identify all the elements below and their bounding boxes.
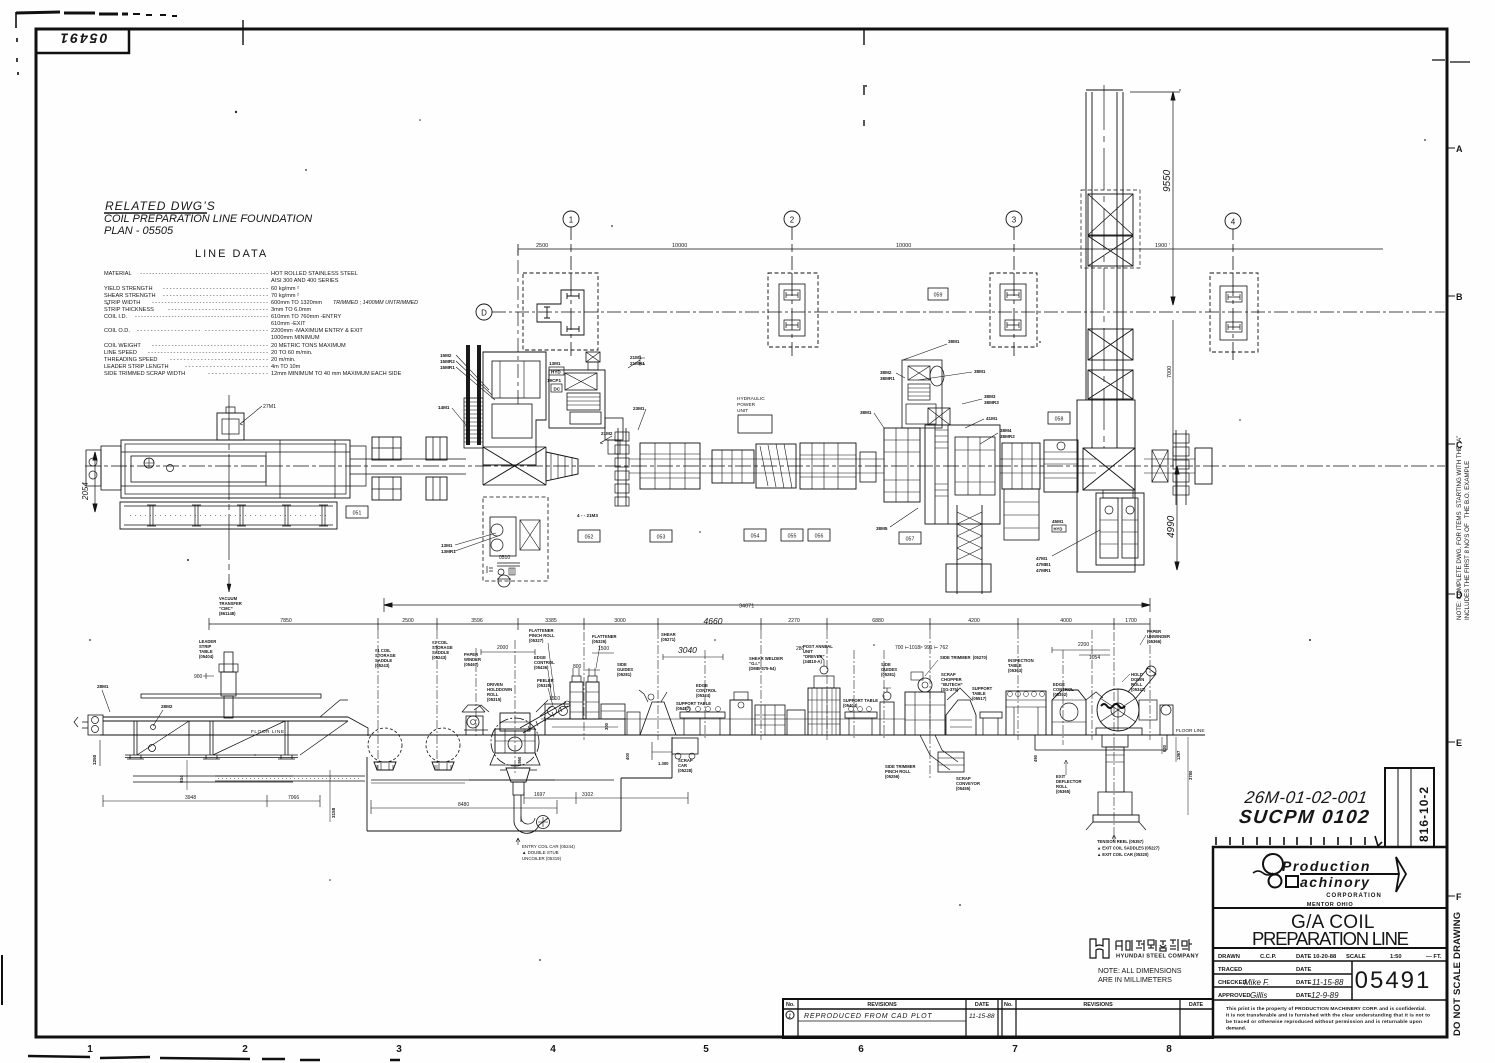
- svg-text:059: 059: [934, 293, 943, 299]
- svg-text:CORPORATION: CORPORATION: [1326, 893, 1382, 899]
- column line 3: [1006, 211, 1022, 356]
- svg-text:COIL WEIGHT: COIL WEIGHT: [104, 343, 141, 349]
- svg-text:AISI 300 AND 400 SERIES: AISI 300 AND 400 SERIES: [271, 278, 339, 284]
- svg-text:E: E: [1456, 738, 1462, 748]
- label box 053: [650, 530, 672, 542]
- svg-text:COIL PREPARATION LINE FOUNDATI: COIL PREPARATION LINE FOUNDATION: [104, 213, 312, 225]
- svg-text:47M1: 47M1: [1036, 556, 1048, 561]
- top-left drawing number box: [36, 29, 129, 53]
- label box 052: [578, 530, 600, 542]
- post anneal label: [803, 644, 833, 664]
- svg-text:800: 800: [573, 664, 582, 670]
- svg-text:(34810-A): (34810-A): [803, 659, 822, 664]
- svg-text:11-15-88: 11-15-88: [1312, 978, 1344, 987]
- svg-text:— FT.: — FT.: [1426, 954, 1442, 960]
- shear welder machines: [730, 692, 805, 735]
- svg-text:(05324): (05324): [696, 693, 711, 698]
- PMC logo circles: [1263, 854, 1283, 874]
- svg-text:LINE DATA: LINE DATA: [195, 248, 268, 260]
- plan labels 38M series: [860, 339, 1015, 531]
- bottom scale numbers: [87, 1044, 1172, 1055]
- svg-text:45M1: 45M1: [1052, 519, 1064, 524]
- svg-text:900: 900: [194, 674, 203, 680]
- svg-text:38M1: 38M1: [860, 410, 872, 415]
- svg-text:achinory: achinory: [1300, 874, 1370, 890]
- svg-text:NOTE: COMPLETE DWG. FOR ITEMS: NOTE: COMPLETE DWG. FOR ITEMS STARTING W…: [1456, 436, 1463, 620]
- svg-text:POWER: POWER: [737, 402, 756, 408]
- svg-text:TRIMMED ; 1400MM UNTRIMMED: TRIMMED ; 1400MM UNTRIMMED: [333, 300, 418, 306]
- tower x-brace box 1: [1081, 190, 1140, 268]
- svg-text:2500: 2500: [536, 243, 548, 249]
- svg-text:70 kg/mm ²: 70 kg/mm ²: [271, 293, 299, 299]
- tower x-brace box 2: [1088, 236, 1133, 266]
- edge control A-frame: [627, 690, 676, 735]
- dashed pit outline below uncoiler: [483, 497, 548, 581]
- svg-text:5: 5: [703, 1044, 709, 1055]
- svg-text:A: A: [1456, 144, 1463, 154]
- svg-text:700 ⊢1018⊧ 991 ⊢ 762: 700 ⊢1018⊧ 991 ⊢ 762: [895, 644, 948, 651]
- svg-text:2: 2: [790, 216, 795, 225]
- svg-text:REPRODUCED FROM CAD PLOT: REPRODUCED FROM CAD PLOT: [804, 1013, 933, 1020]
- svg-text:1: 1: [87, 1044, 93, 1055]
- svg-text:4 - - 21M3: 4 - - 21M3: [577, 513, 598, 518]
- svg-text:LINE SPEED: LINE SPEED: [104, 350, 137, 356]
- exit deflector roll label: [1056, 774, 1082, 794]
- svg-text:0510: 0510: [499, 555, 510, 561]
- svg-text:2200mm -MAXIMUM ENTRY & EXIT: 2200mm -MAXIMUM ENTRY & EXIT: [271, 328, 363, 334]
- svg-text:38M4: 38M4: [1000, 428, 1012, 433]
- svg-text:15M2: 15M2: [440, 353, 452, 358]
- label boxes 054 055 056: [744, 529, 766, 541]
- svg-text:052: 052: [585, 535, 594, 541]
- side guides mid elevation: [880, 688, 894, 735]
- svg-text:(SG-375): (SG-375): [941, 687, 959, 692]
- svg-text:20 TO 60 m/min.: 20 TO 60 m/min.: [271, 350, 313, 356]
- dim 4990 vertical: [1166, 466, 1179, 570]
- svg-text:This print is the property of: This print is the property of PRODUCTION…: [1226, 1006, 1427, 1012]
- svg-text:47MB1: 47MB1: [1036, 562, 1051, 567]
- scrap chute below floor: [920, 735, 964, 772]
- svg-text:1.300: 1.300: [658, 761, 669, 766]
- svg-text:47MR1: 47MR1: [1036, 568, 1051, 573]
- svg-text:056: 056: [815, 534, 824, 540]
- svg-text:27M1: 27M1: [263, 404, 276, 410]
- svg-text:MATERIAL: MATERIAL: [104, 271, 132, 277]
- paper winder roll stack: [464, 398, 483, 448]
- svg-text:THREADING SPEED: THREADING SPEED: [104, 357, 157, 363]
- svg-text:(05326): (05326): [592, 639, 607, 644]
- footing column 2: [768, 273, 818, 347]
- overall dim 34071: [384, 598, 1150, 612]
- footing column 1: [518, 250, 598, 404]
- tower x-brace box 4: [1088, 370, 1133, 399]
- svg-text:Gillis: Gillis: [1250, 991, 1267, 1000]
- svg-text:11-15-88: 11-15-88: [969, 1013, 995, 1020]
- svg-text:DATE: DATE: [1296, 954, 1311, 960]
- svg-text:2200: 2200: [1078, 642, 1089, 648]
- tension reel head: [1096, 666, 1157, 735]
- svg-text:▲ EXIT COIL SADDLES (05227): ▲ EXIT COIL SADDLES (05227): [1097, 846, 1160, 851]
- svg-text:4: 4: [1231, 218, 1236, 227]
- column line 1: [563, 211, 579, 356]
- svg-text:DATE: DATE: [1296, 980, 1311, 986]
- svg-text:610mm TO 760mm -ENTRY: 610mm TO 760mm -ENTRY: [271, 314, 342, 320]
- svg-text:2000: 2000: [497, 645, 508, 651]
- scrap car below floor: [652, 738, 698, 760]
- svg-text:38MR1: 38MR1: [880, 376, 895, 381]
- svg-text:1950: 1950: [517, 756, 522, 766]
- svg-text:ARE IN MILLIMETERS: ARE IN MILLIMETERS: [1098, 975, 1172, 984]
- svg-text:053: 053: [657, 535, 666, 541]
- shear label: [661, 632, 676, 642]
- svg-text:DATE: DATE: [1296, 967, 1311, 973]
- entry guide rollers: [74, 715, 103, 735]
- welder motor oval: [930, 366, 944, 386]
- end stand (plan): [1195, 448, 1212, 484]
- leader strip table label: [199, 639, 216, 659]
- svg-text:COIL O.D.: COIL O.D.: [104, 328, 130, 334]
- svg-text:41M1: 41M1: [986, 416, 998, 421]
- svg-text:D: D: [481, 309, 487, 318]
- svg-text:FLOOR LINE: FLOOR LINE: [1176, 728, 1205, 734]
- shear welder cluster (plan): [884, 360, 942, 502]
- svg-text:LEADER STRIP LENGTH: LEADER STRIP LENGTH: [104, 364, 169, 370]
- dim 7000 vertical: [1167, 320, 1173, 466]
- side trimmer machine elevation: [905, 672, 972, 735]
- paper winder label: [464, 652, 481, 667]
- svg-text:3596: 3596: [471, 618, 483, 624]
- main line centerline: [85, 465, 1445, 467]
- label box 059: [928, 288, 948, 300]
- drawing title: [1213, 947, 1447, 949]
- svg-text:7000: 7000: [1167, 366, 1173, 378]
- disclaimer: [1226, 1006, 1430, 1032]
- svg-text:(05392): (05392): [1053, 692, 1068, 697]
- svg-text:-----------------------------: -----------------------------: [170, 357, 268, 363]
- svg-text:STRIP THICKNESS: STRIP THICKNESS: [104, 307, 154, 313]
- svg-text:(05404): (05404): [199, 654, 214, 659]
- svg-text:34071: 34071: [739, 604, 754, 610]
- post anneal unit: [808, 655, 840, 735]
- svg-text:------------------------------: ------------------------------------: [152, 343, 268, 349]
- svg-text:05491: 05491: [1355, 967, 1432, 994]
- svg-text:B: B: [1456, 292, 1463, 302]
- scrap conveyor label: [956, 776, 980, 791]
- svg-text:1: 1: [569, 216, 574, 225]
- svg-text:4000: 4000: [1060, 618, 1072, 624]
- svg-text:(05467): (05467): [464, 662, 479, 667]
- labels uncoiler area: [438, 353, 645, 554]
- svg-text:DC: DC: [554, 387, 561, 392]
- edge control / support table labels: [676, 683, 717, 711]
- svg-text:DRAWN: DRAWN: [1218, 954, 1240, 960]
- svg-text:C.C.P.: C.C.P.: [1260, 954, 1277, 960]
- svg-text:------------------- ---------: ------------------- -------------------: [137, 328, 268, 334]
- exit edge control label: [1053, 682, 1074, 697]
- svg-text:1250: 1250: [92, 754, 97, 765]
- svg-text:14M1: 14M1: [438, 405, 450, 410]
- footing column 3: [990, 273, 1037, 347]
- svg-text:300: 300: [604, 722, 609, 730]
- vacuum transfer label: [219, 596, 242, 616]
- svg-text:1: 1: [788, 1014, 791, 1020]
- svg-text:3: 3: [1012, 216, 1017, 225]
- svg-text:YIELD STRENGTH: YIELD STRENGTH: [104, 286, 153, 292]
- svg-text:13M1: 13M1: [549, 361, 561, 366]
- svg-text:(DMB-375-54): (DMB-375-54): [749, 666, 776, 671]
- svg-text:23M1: 23M1: [633, 406, 645, 411]
- svg-text:SCALE: SCALE: [1346, 954, 1366, 960]
- paper unwinder elevation: [1160, 705, 1173, 735]
- svg-text:CHECKED: CHECKED: [1218, 980, 1247, 986]
- svg-text:SHEAR STRENGTH: SHEAR STRENGTH: [104, 293, 156, 299]
- title block outer: [1213, 847, 1447, 1037]
- svg-text:RELATED DWG’S: RELATED DWG’S: [105, 199, 216, 213]
- floor line: [100, 734, 1205, 736]
- svg-text:051: 051: [353, 511, 362, 517]
- shear table (plan): [712, 450, 754, 483]
- svg-text:STRIP WIDTH: STRIP WIDTH: [104, 300, 140, 306]
- inspection table label: [1008, 658, 1034, 673]
- svg-text:610mm -EXIT: 610mm -EXIT: [271, 321, 306, 327]
- pit lines below floor left: [133, 737, 672, 831]
- mandrel cone: [546, 452, 578, 481]
- svg-text:1000mm MINIMUM: 1000mm MINIMUM: [271, 335, 320, 341]
- uncoiler mandrel cross: [483, 447, 546, 485]
- svg-text:REVISIONS: REVISIONS: [867, 1002, 897, 1008]
- hold down arm small figures 0510: [487, 555, 520, 587]
- svg-text:TRACED: TRACED: [1218, 967, 1242, 973]
- svg-text:(05517): (05517): [972, 696, 987, 701]
- svg-text:SUCPM 0102: SUCPM 0102: [1238, 807, 1371, 828]
- inspection table (plan): [1002, 443, 1040, 540]
- scrap chopper: [946, 700, 976, 735]
- svg-text:38M5: 38M5: [876, 526, 888, 531]
- tension reel pedestal below floor: [1086, 735, 1146, 830]
- column grid dimension line: [518, 244, 1383, 255]
- revision row 1: [786, 1011, 794, 1019]
- support table mid: [845, 707, 877, 736]
- svg-text:PLAN - 05505: PLAN - 05505: [104, 225, 174, 237]
- svg-text:demand.: demand.: [1226, 1026, 1247, 1032]
- svg-text:(05281): (05281): [617, 672, 632, 677]
- exit deflector stand (plan): [1152, 450, 1168, 482]
- roll stand pair B: [426, 437, 447, 500]
- svg-text:10000: 10000: [896, 243, 911, 249]
- svg-text:15MR1: 15MR1: [440, 365, 455, 370]
- svg-text:6880: 6880: [872, 618, 884, 624]
- svg-text:20 METRIC TONS MAXIMUM: 20 METRIC TONS MAXIMUM: [271, 343, 346, 349]
- paper winder elevation: [462, 705, 488, 735]
- hold down roll label: [1131, 672, 1146, 692]
- svg-text:(861148): (861148): [219, 611, 236, 616]
- svg-text:3158: 3158: [331, 807, 336, 818]
- svg-text:2054: 2054: [81, 482, 90, 501]
- flattener labels: [529, 628, 617, 688]
- peeler boom diagonal: [520, 701, 570, 733]
- svg-text:7850: 7850: [280, 618, 292, 624]
- entry transfer machine (plan): [86, 440, 350, 498]
- scan speckles: [89, 85, 1426, 961]
- svg-text:38MR2: 38MR2: [1000, 434, 1015, 439]
- entry coil car label: [522, 844, 575, 861]
- svg-text:3000: 3000: [614, 618, 626, 624]
- LINE DATA table: [104, 271, 418, 377]
- holddown roll label: [487, 682, 512, 702]
- svg-text:3780: 3780: [1188, 770, 1193, 780]
- svg-text:REVISIONS: REVISIONS: [1083, 1002, 1113, 1008]
- svg-text:SIDE TRIMMED SCRAP WIDTH: SIDE TRIMMED SCRAP WIDTH: [104, 371, 185, 377]
- vacuum transfer mast: [219, 652, 238, 718]
- leader strip: [141, 694, 321, 698]
- exit roll chain (plan): [1173, 430, 1189, 505]
- svg-text:(05271): (05271): [661, 637, 676, 642]
- svg-text:13MR1: 13MR1: [441, 549, 456, 554]
- roller table top line: [541, 718, 905, 720]
- tower x-brace box 3: [1088, 329, 1133, 360]
- svg-text:600mm TO 1320mm: 600mm TO 1320mm: [271, 300, 322, 306]
- svg-text:HOT ROLLED STAINLESS STEEL: HOT ROLLED STAINLESS STEEL: [271, 271, 358, 277]
- svg-text:(05365): (05365): [1056, 789, 1071, 794]
- svg-text:HYD: HYD: [551, 370, 561, 375]
- svg-text:DATE: DATE: [1189, 1002, 1204, 1008]
- svg-text:1900 ′: 1900 ′: [1155, 243, 1170, 249]
- svg-text:12-9-89: 12-9-89: [1311, 991, 1339, 1000]
- HYD and DC tag boxes: [549, 367, 564, 375]
- driven holddown roll unit: [474, 700, 552, 766]
- svg-text:490: 490: [1033, 754, 1038, 762]
- svg-text:7: 7: [1012, 1044, 1018, 1055]
- svg-text:------------------------------: ------------------------------: [168, 307, 268, 313]
- svg-text:38M1: 38M1: [948, 339, 960, 344]
- svg-text:055: 055: [788, 534, 797, 540]
- tension reel label: [1097, 839, 1160, 857]
- leader strip table truss: [103, 700, 368, 759]
- svg-text:38M1: 38M1: [974, 369, 986, 374]
- svg-text:20 m/min.: 20 m/min.: [271, 357, 296, 363]
- saddle 2 label: [432, 640, 453, 660]
- tower lower outer rect: [1077, 400, 1135, 572]
- saddle 1 label: [375, 648, 396, 668]
- svg-text:60 kg/mm ²: 60 kg/mm ²: [271, 286, 299, 292]
- svg-text:COIL I.D.: COIL I.D.: [104, 314, 128, 320]
- svg-text:(05228): (05228): [678, 768, 693, 773]
- svg-text:2270: 2270: [788, 618, 800, 624]
- svg-text:be traced or otherwise reprodu: be traced or otherwise reproduced withou…: [1226, 1019, 1422, 1025]
- machine spacing dim chain: [209, 616, 1150, 630]
- dim 9550 vertical: [1130, 92, 1180, 305]
- peeler table (plan): [549, 370, 605, 428]
- svg-text:400: 400: [625, 752, 630, 760]
- entry coil car below floor: [500, 768, 550, 833]
- inspection table elevation: [1006, 691, 1046, 735]
- svg-text:HYD: HYD: [1054, 527, 1063, 532]
- svg-text:DATE: DATE: [975, 1002, 990, 1008]
- svg-text:8480: 8480: [458, 802, 469, 808]
- svg-text:7066: 7066: [288, 795, 299, 801]
- svg-text:1700: 1700: [1125, 618, 1137, 624]
- svg-text:1697: 1697: [534, 792, 545, 798]
- svg-text:MENTOR OHIO: MENTOR OHIO: [1307, 902, 1354, 908]
- svg-text:(05243): (05243): [432, 655, 447, 660]
- right margin vertical note: [1456, 436, 1471, 620]
- grid row D centerline: [492, 311, 1445, 313]
- machine centerline vertical: [228, 395, 230, 592]
- hyundai steel stamp H logo: [1090, 939, 1199, 960]
- side trimmer pinch roll label: [885, 764, 915, 779]
- belt wrapper conveyor (plan, diagonal rolls): [756, 444, 796, 488]
- svg-text:3040: 3040: [678, 645, 697, 655]
- svg-text:ENTRY COIL CAR (05244): ENTRY COIL CAR (05244): [522, 844, 575, 849]
- svg-text:No.: No.: [786, 1002, 795, 1008]
- revisions table: [783, 999, 1213, 1038]
- svg-text:3385: 3385: [545, 618, 557, 624]
- support table entry: [680, 707, 725, 736]
- svg-text:15MR2: 15MR2: [440, 359, 455, 364]
- svg-text:054: 054: [751, 534, 760, 540]
- support table 05517: [980, 712, 1002, 735]
- svg-text:HYDRAULIC: HYDRAULIC: [737, 396, 765, 402]
- svg-text:3mm TO 6.0mm: 3mm TO 6.0mm: [271, 307, 312, 313]
- svg-text:13M1: 13M1: [441, 543, 453, 548]
- svg-text:630: 630: [1162, 744, 1167, 752]
- small stand (plan): [860, 452, 876, 482]
- svg-text:3102: 3102: [582, 792, 593, 798]
- svg-text:10-20-88: 10-20-88: [1313, 954, 1337, 960]
- svg-text:NOTE: ALL DIMENSIONS: NOTE: ALL DIMENSIONS: [1098, 966, 1182, 975]
- paper winder masts (dark bars): [466, 345, 470, 445]
- svg-text:(05363): (05363): [1008, 668, 1023, 673]
- 21M1 motor block: [586, 352, 600, 370]
- svg-text:3948: 3948: [185, 795, 196, 801]
- svg-text:(05436): (05436): [534, 665, 549, 670]
- svg-text:6: 6: [858, 1044, 864, 1055]
- shear welder labels: [749, 656, 783, 671]
- svg-text:3: 3: [396, 1044, 402, 1055]
- svg-text:▲ EXIT COIL CAR (05320): ▲ EXIT COIL CAR (05320): [1097, 852, 1149, 857]
- svg-text:------------------------------: ----------------------------------------…: [140, 271, 268, 277]
- svg-text:1054: 1054: [1089, 655, 1100, 661]
- svg-text:------------------------------: ----------------------------------------…: [135, 314, 268, 320]
- scrap conveyor going down (plan): [946, 505, 991, 594]
- svg-text:4200: 4200: [968, 618, 980, 624]
- note all dimensions: [1098, 966, 1182, 984]
- svg-text:Production: Production: [1282, 858, 1371, 874]
- svg-text:(05366): (05366): [1147, 639, 1162, 644]
- svg-text:Mike F.: Mike F.: [1244, 978, 1269, 987]
- svg-text:(05404): (05404): [843, 703, 858, 708]
- svg-text:38M2: 38M2: [880, 370, 892, 375]
- svg-text:SIDE TRIMMER (05270): SIDE TRIMMER (05270): [940, 655, 988, 660]
- svg-text:38M3: 38M3: [984, 394, 996, 399]
- svg-text:(05487): (05487): [676, 706, 691, 711]
- svg-text:058: 058: [1055, 417, 1064, 423]
- label box 051: [346, 506, 368, 518]
- exit reel machinery (plan): [1096, 490, 1144, 565]
- svg-text:UNIT: UNIT: [737, 408, 748, 414]
- svg-text:PREPARATION LINE: PREPARATION LINE: [1252, 928, 1410, 949]
- 27M1 drive box on machine: [217, 407, 244, 440]
- dim 1250 left: [99, 740, 101, 766]
- svg-text:------------------------------: -------------------------------------: [152, 300, 268, 306]
- svg-text:4660: 4660: [704, 616, 723, 626]
- svg-text:1:50: 1:50: [1390, 954, 1402, 960]
- svg-text:No.: No.: [1004, 1002, 1013, 1008]
- logo arrow: [1396, 857, 1406, 892]
- side guides entry label: [617, 662, 633, 677]
- svg-text:1367: 1367: [1176, 750, 1181, 760]
- data rows: [1213, 961, 1447, 1000]
